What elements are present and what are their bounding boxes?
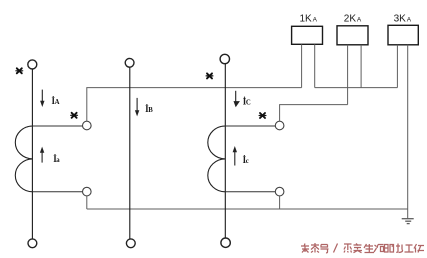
svg-text:A: A xyxy=(55,99,60,106)
polarity mark secondary A xyxy=(71,113,78,118)
wire A-CT secondary bottom xyxy=(33,191,83,193)
wire 1KA to 3KA xyxy=(315,87,398,89)
svg-text:2K: 2K xyxy=(344,14,357,25)
node B top terminal xyxy=(125,58,134,67)
label İA xyxy=(52,96,60,106)
ground xyxy=(402,209,414,224)
svg-text:A: A xyxy=(407,17,412,24)
wire 2KA left lead xyxy=(347,45,349,105)
current arrow İa xyxy=(40,147,44,163)
node C bottom terminal xyxy=(221,238,230,247)
label İa xyxy=(53,154,60,164)
relay 3KA box xyxy=(388,25,418,45)
wire phase A xyxy=(31,69,33,239)
wire C-CT secondary bottom xyxy=(225,191,275,193)
polarity mark secondary C xyxy=(259,113,266,118)
wire 3KA right lead to ground xyxy=(407,45,409,209)
svg-text:1K: 1K xyxy=(300,14,313,25)
wire A-CT secondary top xyxy=(33,125,83,127)
svg-text:A: A xyxy=(313,17,318,24)
svg-text:3K: 3K xyxy=(394,14,407,25)
label 2KA xyxy=(344,14,362,25)
node B bottom terminal xyxy=(126,239,135,248)
transformer TA-A winding xyxy=(15,126,33,192)
wire 1KA right lead xyxy=(314,44,316,87)
current arrow İC xyxy=(234,91,240,108)
wire 1KA left lead xyxy=(301,44,303,87)
node A bottom terminal xyxy=(28,239,37,248)
label İB xyxy=(145,104,153,114)
label 1KA xyxy=(300,14,318,25)
node c1 terminal xyxy=(275,121,284,130)
wire phase C xyxy=(224,64,226,238)
wire a2 down to common return xyxy=(86,196,88,209)
svg-text:a: a xyxy=(56,157,60,164)
wire phase B xyxy=(129,67,131,239)
node a2 terminal xyxy=(83,187,92,196)
polarity mark primary A xyxy=(16,68,23,73)
transformer TA-C winding xyxy=(208,126,225,192)
svg-text:C: C xyxy=(246,99,251,106)
label İC xyxy=(243,96,251,106)
wire common return bottom xyxy=(87,208,408,210)
wire 3KA left lead xyxy=(396,45,398,88)
wire 2KA right lead xyxy=(360,45,362,88)
label 3KA xyxy=(394,14,412,25)
wire c2 down to common return xyxy=(279,196,281,209)
wire C-CT secondary top xyxy=(225,125,275,127)
node A top terminal xyxy=(28,60,37,69)
svg-text:c: c xyxy=(246,158,249,165)
node a1 terminal xyxy=(83,121,92,130)
current arrow İc xyxy=(233,146,237,166)
relay 2KA box xyxy=(337,26,368,45)
svg-text:A: A xyxy=(357,17,362,24)
wire a1 to relay 1KA xyxy=(87,88,302,122)
current arrow İB xyxy=(135,98,139,117)
relay 1KA box xyxy=(292,26,323,44)
current arrow İA xyxy=(40,90,44,107)
polarity mark primary C xyxy=(206,73,213,78)
node C top terminal xyxy=(220,54,229,63)
wire c1 to relay 2KA xyxy=(280,105,348,122)
watermark 头条号 / 热爱生活的打工仔 xyxy=(301,243,424,253)
label İc xyxy=(243,155,249,165)
svg-text:B: B xyxy=(148,107,153,114)
node c2 terminal xyxy=(275,187,284,196)
